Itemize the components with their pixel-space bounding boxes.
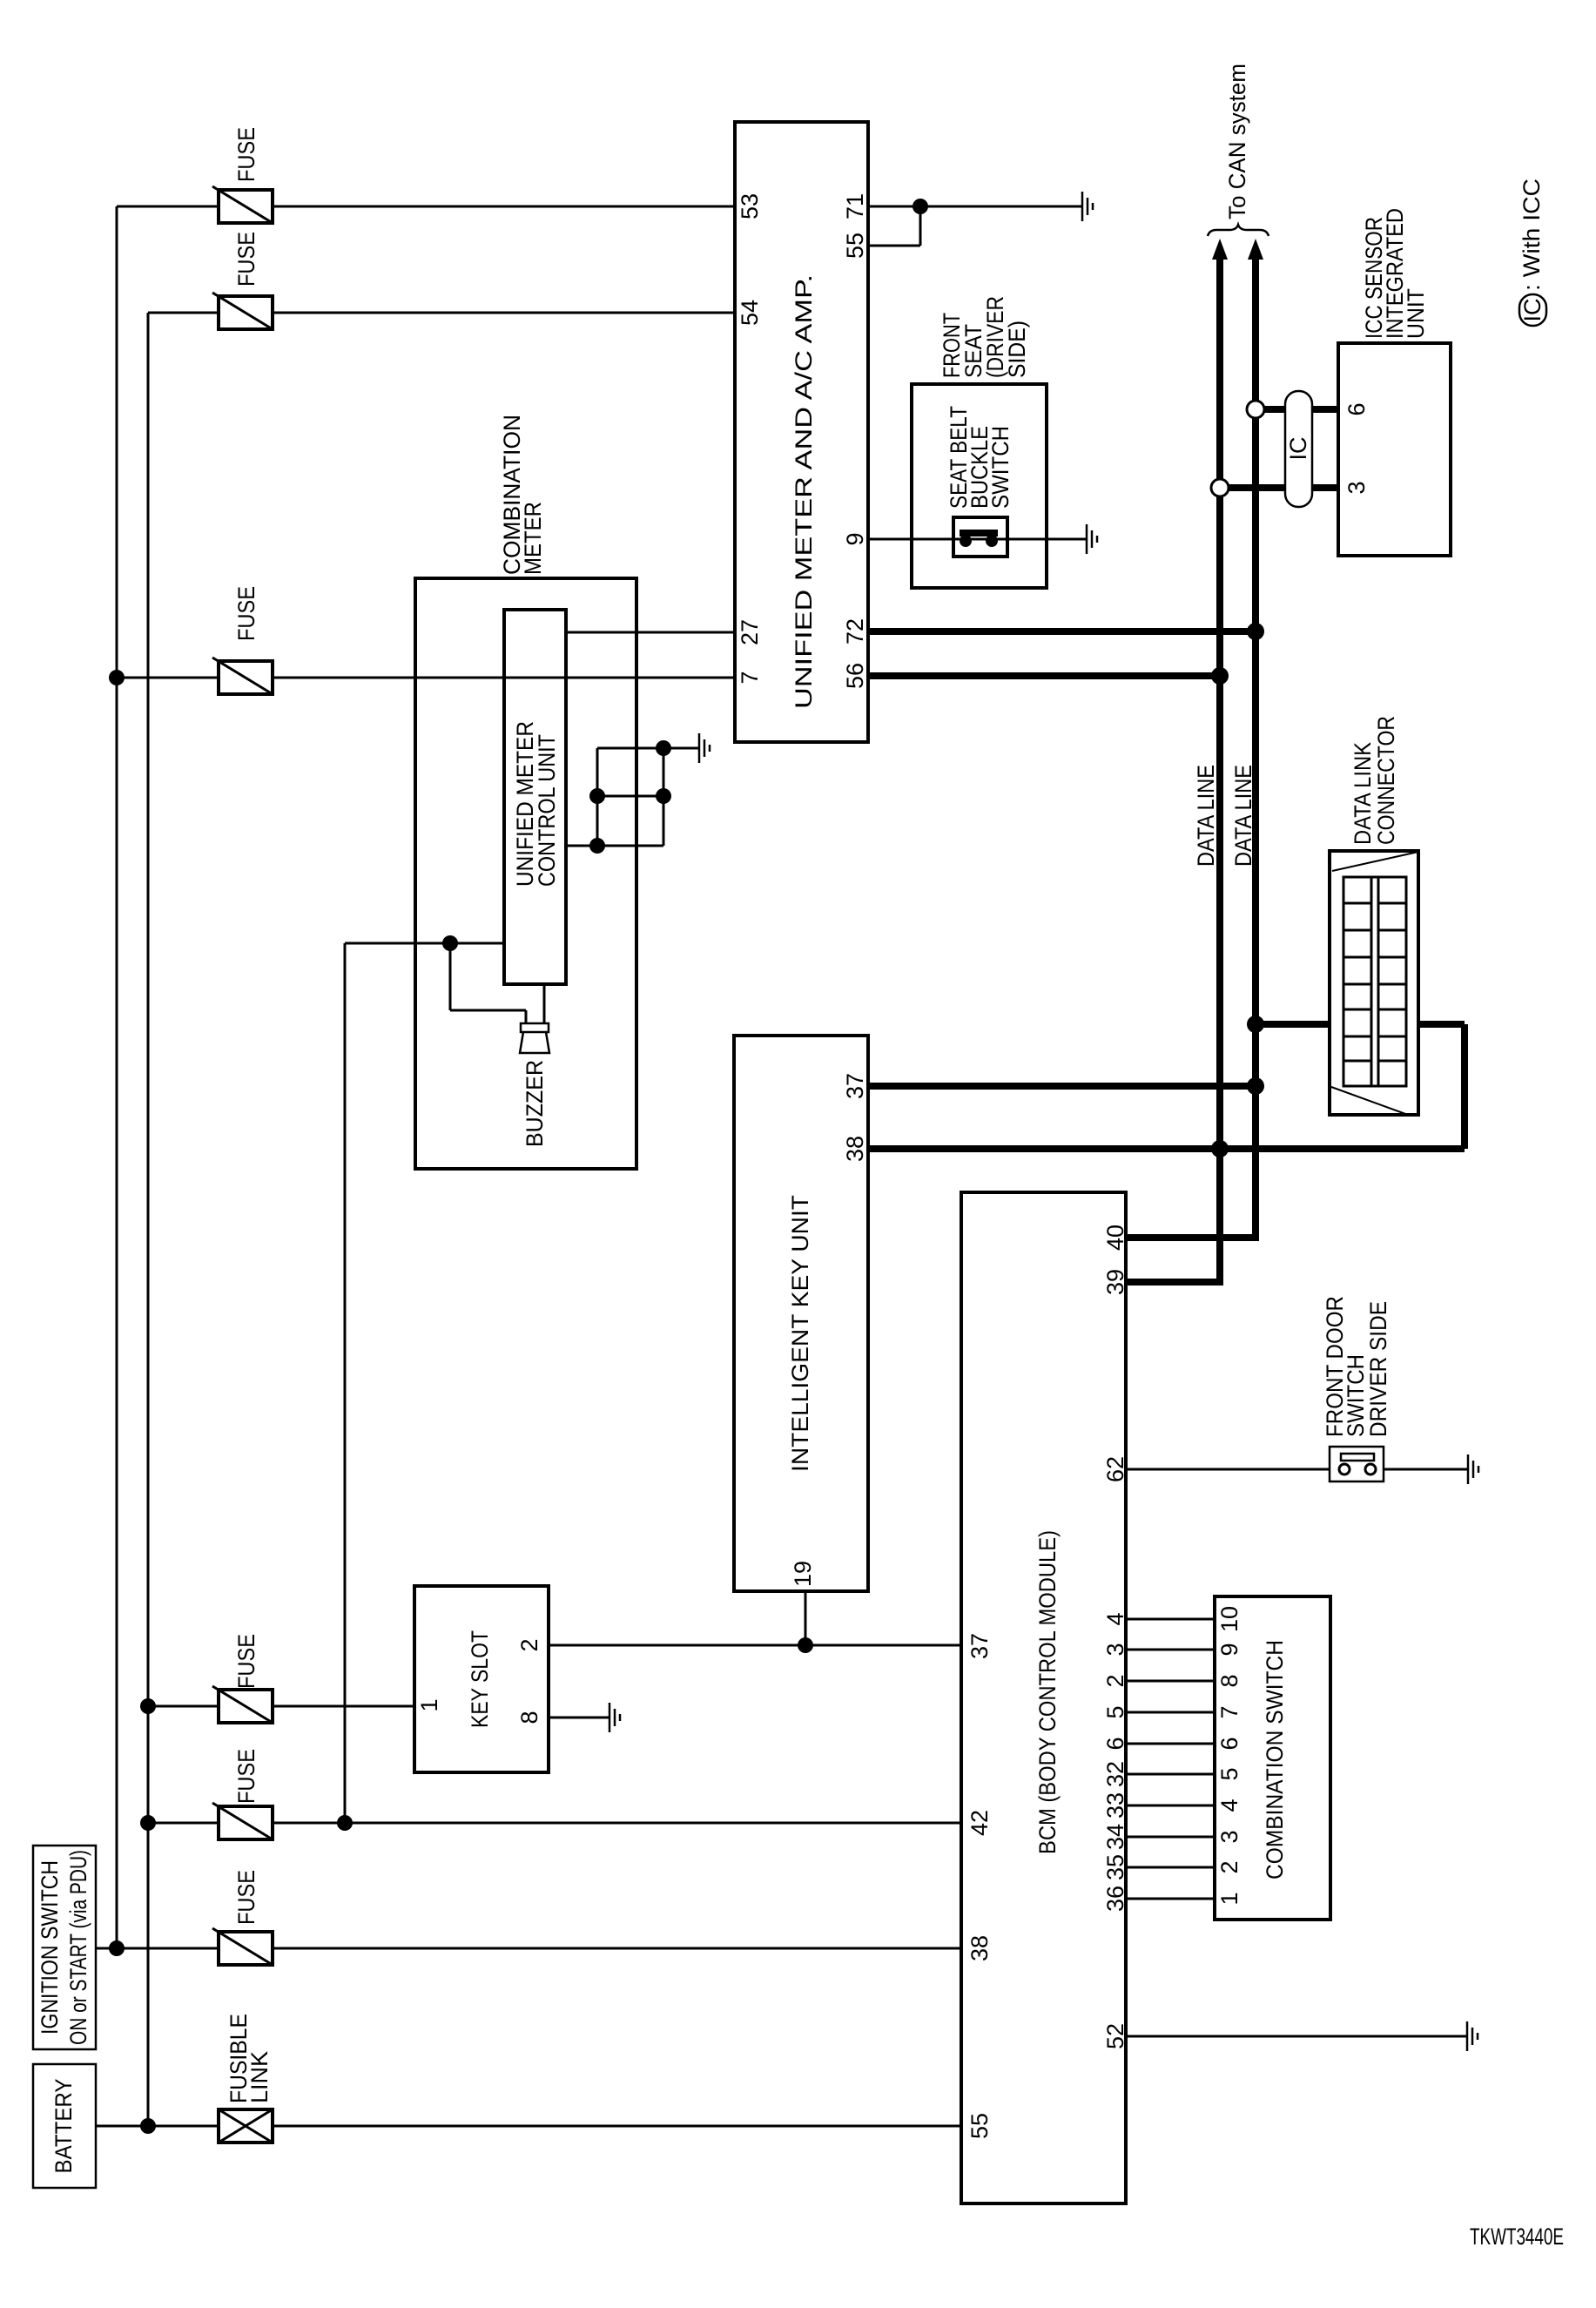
svg-text:IC: IC [1519, 299, 1545, 322]
svg-text:1: 1 [1216, 1892, 1242, 1905]
svg-text:CONTROL UNIT: CONTROL UNIT [534, 734, 560, 887]
svg-text:37: 37 [966, 1633, 993, 1659]
svg-text:LINK: LINK [246, 2051, 273, 2103]
svg-text:METER: METER [520, 502, 546, 575]
svg-text:35: 35 [1102, 1854, 1128, 1880]
svg-text:56: 56 [842, 663, 868, 689]
svg-text:55: 55 [842, 233, 868, 259]
svg-text:53: 53 [737, 193, 763, 219]
svg-text:6: 6 [1102, 1737, 1128, 1750]
svg-text:7: 7 [737, 671, 763, 684]
svg-text:39: 39 [1102, 1269, 1128, 1295]
svg-text:5: 5 [1216, 1767, 1242, 1780]
svg-text:2: 2 [516, 1638, 542, 1651]
svg-text:27: 27 [737, 619, 763, 645]
svg-text:38: 38 [966, 1935, 993, 1961]
svg-text:54: 54 [737, 300, 763, 326]
svg-text:SIDE): SIDE) [1004, 321, 1030, 378]
svg-text:72: 72 [842, 618, 868, 644]
svg-text:2: 2 [1216, 1860, 1242, 1873]
svg-text:FUSE: FUSE [233, 127, 259, 182]
svg-text:SWITCH: SWITCH [987, 426, 1013, 509]
svg-text:CONNECTOR: CONNECTOR [1373, 716, 1399, 845]
svg-text:IC: IC [1285, 437, 1311, 461]
svg-text:9: 9 [842, 532, 868, 545]
svg-text:DRIVER SIDE: DRIVER SIDE [1365, 1301, 1391, 1437]
svg-text:FUSE: FUSE [233, 1749, 259, 1804]
svg-text:36: 36 [1102, 1886, 1128, 1912]
svg-text:71: 71 [842, 193, 868, 219]
svg-text:10: 10 [1216, 1606, 1242, 1632]
svg-text:DATA LINK: DATA LINK [1350, 742, 1376, 845]
svg-text:IGNITION SWITCH: IGNITION SWITCH [37, 1860, 63, 2035]
svg-text:BATTERY: BATTERY [51, 2079, 77, 2174]
svg-text:40: 40 [1102, 1225, 1128, 1251]
svg-text:FUSE: FUSE [233, 1870, 259, 1925]
svg-text:DATA LINE: DATA LINE [1230, 765, 1256, 867]
svg-text:6: 6 [1343, 402, 1370, 415]
svg-text:BUZZER: BUZZER [522, 1060, 548, 1147]
svg-text:UNIT: UNIT [1403, 288, 1429, 339]
svg-text:To CAN system: To CAN system [1224, 64, 1250, 219]
svg-text:BCM (BODY CONTROL MODULE): BCM (BODY CONTROL MODULE) [1034, 1530, 1061, 1854]
svg-text:3: 3 [1343, 481, 1370, 494]
svg-text:KEY SLOT: KEY SLOT [467, 1630, 493, 1728]
svg-text:52: 52 [1102, 2023, 1128, 2049]
svg-text:37: 37 [842, 1073, 868, 1099]
svg-text:DATA LINE: DATA LINE [1193, 765, 1219, 867]
svg-text:38: 38 [842, 1136, 868, 1162]
svg-text:2: 2 [1102, 1674, 1128, 1687]
svg-text:6: 6 [1216, 1737, 1242, 1750]
svg-text:4: 4 [1102, 1612, 1128, 1625]
svg-text:: With ICC: : With ICC [1519, 179, 1545, 291]
svg-text:3: 3 [1102, 1643, 1128, 1656]
svg-text:TKWT3440E: TKWT3440E [1470, 2224, 1564, 2250]
svg-text:4: 4 [1216, 1798, 1242, 1812]
svg-text:FUSE: FUSE [233, 586, 259, 641]
svg-text:9: 9 [1216, 1643, 1242, 1656]
svg-text:INTELLIGENT KEY UNIT: INTELLIGENT KEY UNIT [787, 1195, 813, 1472]
svg-text:42: 42 [966, 1810, 993, 1836]
svg-text:55: 55 [966, 2113, 993, 2139]
svg-text:COMBINATION SWITCH: COMBINATION SWITCH [1262, 1640, 1288, 1879]
svg-text:5: 5 [1102, 1705, 1128, 1718]
svg-text:FUSE: FUSE [233, 1634, 259, 1689]
svg-text:32: 32 [1102, 1761, 1128, 1787]
svg-text:UNIFIED METER AND A/C AMP.: UNIFIED METER AND A/C AMP. [791, 274, 817, 709]
svg-text:19: 19 [790, 1561, 816, 1587]
svg-text:7: 7 [1216, 1705, 1242, 1718]
svg-text:FUSE: FUSE [233, 232, 259, 287]
svg-text:ON or START (via PDU): ON or START (via PDU) [65, 1850, 91, 2045]
svg-text:62: 62 [1102, 1456, 1128, 1482]
svg-text:8: 8 [516, 1711, 542, 1724]
svg-text:8: 8 [1216, 1674, 1242, 1687]
svg-text:3: 3 [1216, 1830, 1242, 1843]
svg-text:33: 33 [1102, 1792, 1128, 1819]
svg-text:34: 34 [1102, 1824, 1128, 1850]
svg-text:1: 1 [416, 1698, 442, 1711]
